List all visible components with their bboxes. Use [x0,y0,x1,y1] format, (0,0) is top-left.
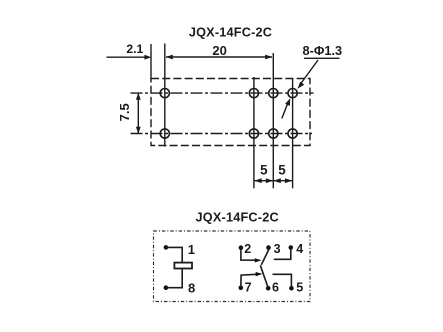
coil: wire coil to pin8 [166,269,182,288]
svg-text:2.1: 2.1 [126,42,143,56]
hole H5 (top row right group, right) [288,89,297,98]
center line, bottom hole row [131,133,313,135]
svg-text:5: 5 [278,162,286,177]
wire pin 4 [274,248,291,260]
center/extension line, hole column x=273 [272,53,274,188]
hole H2 (bottom-left) [160,129,169,138]
hole H3 (top row right group, left) [249,89,258,98]
svg-text:1: 1 [188,242,195,257]
relay outline (top view, dashed) [151,79,310,146]
hole H6 (bottom row right group, left) [249,129,258,138]
svg-text:5: 5 [260,162,268,177]
contact pin 7 dot [239,286,244,291]
wire pin 2 with arrow [241,248,262,263]
hole H8 (bottom row right group, right) [288,129,297,138]
movable contact arm (pole 1, from pin 3) [261,250,269,265]
schematic enclosure (dashed) [154,231,311,302]
svg-text:5: 5 [296,280,303,294]
contact pin 3 dot [266,245,271,250]
center/extension line, hole column x=165 [164,44,166,147]
wire pin 5 [273,274,292,288]
svg-text:8-Φ1.3: 8-Φ1.3 [303,43,343,58]
svg-text:8: 8 [188,280,195,295]
hole H7 (bottom row right group, middle) [269,129,278,138]
svg-text:6: 6 [272,281,279,295]
svg-text:JQX-14FC-2C: JQX-14FC-2C [196,211,279,225]
coil: pin 1 terminal dot [164,245,169,250]
svg-text:4: 4 [296,242,303,256]
center/extension line, hole column x=254 [253,77,255,188]
svg-text:JQX-14FC-2C: JQX-14FC-2C [189,26,272,40]
contact pin 6 dot [266,286,271,291]
center/extension line, hole column x=293 [292,78,294,188]
coil: pin 8 terminal dot [164,285,169,290]
dimension 20 [166,43,272,59]
svg-text:7.5: 7.5 [117,103,132,121]
label 8-PHI-1.3 with leader [282,43,342,119]
coil: wire pin1 to coil [166,247,182,262]
dimension 2.1 [107,42,152,60]
title: JQX-14FC-2C (top drawing) [189,26,272,40]
wire pin 7 with arrow [241,272,263,288]
contact pin 4 dot [289,245,294,250]
coil body [174,263,192,269]
hole H1 (top-left) [160,89,169,98]
dimension 5 (left span) and 5 (right span) [254,162,293,183]
contact pin 2 dot [239,245,244,250]
svg-text:3: 3 [274,242,281,256]
svg-text:20: 20 [212,43,226,58]
dimension 7.5 [117,93,140,134]
contact pin 5 dot [289,286,294,291]
svg-text:7: 7 [245,280,252,294]
svg-text:2: 2 [244,242,251,256]
center line, top hole row [131,92,314,94]
extension line, left edge (for dim 2.1) [150,44,152,79]
movable contact arm (pole 2, to pin 6) [260,265,268,288]
hole H4 (top row right group, middle) [269,89,278,98]
title: JQX-14FC-2C (schematic) [196,211,279,225]
